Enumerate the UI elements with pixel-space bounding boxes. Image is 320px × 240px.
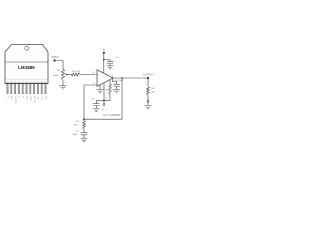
- IC package face divider line: [5, 61, 48, 63]
- wire feedback loop (output to -input): [84, 78, 122, 119]
- resistor R2 1k (input series): [72, 71, 81, 76]
- capacitor C1 (V+ decoupling): [104, 57, 120, 65]
- svg-text:R1: R1: [57, 70, 61, 72]
- IC package U1 LM3886 body outline: [5, 45, 48, 84]
- node V+ supply terminal: [102, 48, 106, 54]
- resistor R4 1k (feedback shunt): [73, 119, 85, 129]
- svg-text:R3: R3: [105, 90, 109, 92]
- junction V+ / C1: [103, 59, 105, 61]
- svg-text:MUTE: MUTE: [33, 96, 35, 103]
- svg-text:C2: C2: [76, 131, 80, 133]
- node OUTPUT terminal: [143, 73, 155, 79]
- wire pin 4 V- down: [103, 83, 105, 101]
- svg-text:+IN: +IN: [41, 96, 43, 100]
- pin 8 label: [106, 98, 108, 100]
- IC package molding step line: [5, 78, 48, 80]
- svg-text:N/C: N/C: [25, 96, 27, 100]
- resistor R3 (mute, pin 8): [105, 80, 111, 101]
- node INPUT terminal: [52, 56, 60, 62]
- potentiometer wiper arrow: [65, 74, 72, 76]
- svg-text:C4 0.1µF: C4 0.1µF: [114, 80, 124, 82]
- pin 3 label: [112, 75, 114, 77]
- svg-text:V+: V+: [102, 48, 106, 52]
- svg-text:V−: V−: [102, 109, 106, 111]
- svg-text:V-: V-: [18, 96, 20, 98]
- pin 1 label: [100, 72, 102, 74]
- svg-text:8Ω: 8Ω: [152, 91, 155, 93]
- svg-text:OUTPUT: OUTPUT: [14, 96, 16, 106]
- capacitor C4 0.1uF (output): [112, 78, 124, 90]
- junction V- node: [103, 100, 105, 102]
- IC pin numbers 1-11: [7, 81, 47, 83]
- ground (C2): [81, 139, 88, 142]
- ground (pot bottom): [59, 81, 66, 90]
- junction output/feedback: [121, 77, 123, 79]
- svg-text:U1 LM3886: U1 LM3886: [103, 113, 120, 117]
- ground (C3): [93, 109, 100, 112]
- wire V- node to C3 and to R3: [96, 100, 110, 102]
- svg-text:C3: C3: [91, 99, 95, 101]
- junction feedback/Ri: [83, 118, 85, 120]
- potentiometer R1 10k: [53, 70, 65, 81]
- svg-text:C1: C1: [116, 57, 120, 59]
- svg-text:R2 1kΩ: R2 1kΩ: [73, 71, 81, 73]
- IC package part label LM3886: [18, 65, 35, 70]
- svg-text:10µF: 10µF: [73, 134, 79, 136]
- ground (C4): [113, 90, 120, 93]
- capacitor C3 (V- decoupling): [91, 99, 99, 109]
- capacitor C2 10uF (feedback shunt): [73, 130, 88, 139]
- svg-text:8: 8: [106, 98, 108, 100]
- node speaker return: [147, 96, 149, 106]
- svg-text:N/C: N/C: [10, 96, 12, 100]
- svg-text:10kΩ: 10kΩ: [53, 75, 59, 77]
- pin 9 label: [93, 83, 95, 85]
- ground (pin 7): [96, 90, 103, 93]
- svg-text:V+: V+: [6, 96, 8, 99]
- wire OUTPUT terminal to RL: [147, 79, 149, 87]
- svg-text:LM3886: LM3886: [18, 65, 35, 70]
- svg-text:1kΩ: 1kΩ: [73, 125, 77, 127]
- svg-text:-IN: -IN: [37, 96, 39, 99]
- ground (C1): [107, 66, 114, 69]
- ground (load): [145, 106, 152, 109]
- IC package pins (11 leads): [7, 84, 46, 94]
- wire input terminal to pot top: [56, 61, 64, 70]
- svg-text:V+: V+: [22, 96, 24, 99]
- svg-text:N/C: N/C: [44, 96, 46, 100]
- pin 10 label: [92, 72, 95, 74]
- pin 7 ground stub: [100, 85, 103, 90]
- svg-text:INPUT: INPUT: [52, 56, 60, 59]
- op-amp designator U1: [105, 74, 109, 76]
- svg-text:10: 10: [92, 72, 95, 74]
- op-amp type label U1 LM3886: [103, 113, 120, 117]
- svg-text:R4: R4: [76, 121, 80, 123]
- IC package mounting hole: [25, 46, 29, 50]
- junction output/zobel: [112, 77, 114, 79]
- op-amp + and - marks: [98, 74, 100, 87]
- svg-text:RL: RL: [152, 88, 156, 90]
- svg-text:OUTPUT: OUTPUT: [143, 73, 155, 76]
- wire V+ to op-amp pin 1: [103, 54, 105, 74]
- op-amp U1 triangle: [97, 70, 113, 87]
- wire R2 to +input: [81, 74, 98, 76]
- IC package bottom edge: [5, 82, 48, 84]
- IC pin function labels: [6, 96, 46, 106]
- node V- terminal: [102, 101, 106, 111]
- resistor RL 8 ohm (load): [147, 87, 156, 96]
- svg-text:3: 3: [112, 75, 114, 77]
- svg-text:GND: GND: [29, 96, 31, 101]
- wire op-amp output to OUTPUT terminal: [113, 77, 148, 79]
